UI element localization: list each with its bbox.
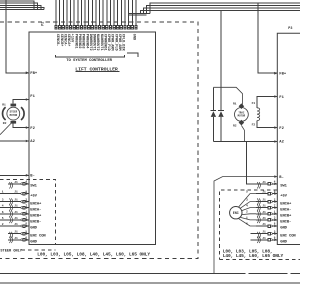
wire A2 left xyxy=(0,140,29,142)
svg-text:SW1: SW1 xyxy=(30,185,37,189)
svg-text:F2: F2 xyxy=(279,127,284,131)
wire SW1 feed xyxy=(246,142,267,184)
label F1 coil xyxy=(252,102,256,105)
label model codes right line1 xyxy=(223,248,273,254)
svg-text:FB+: FB+ xyxy=(30,72,38,76)
svg-text:2: 2 xyxy=(25,198,27,201)
label LIFT CONTROLLER xyxy=(75,66,119,72)
label TO SYSTEM CONTROLLER xyxy=(55,55,124,63)
wire B- left xyxy=(0,174,29,176)
svg-text:XFLD_DIR: XFLD_DIR xyxy=(121,34,125,52)
svg-text:ENCB-: ENCB- xyxy=(30,221,41,225)
svg-text:J1: J1 xyxy=(262,223,266,226)
svg-text:J1: J1 xyxy=(14,211,18,214)
svg-text:PWRGND2: PWRGND2 xyxy=(77,34,81,49)
terminal B- right xyxy=(274,175,284,180)
connector P3 label xyxy=(288,27,292,31)
wire steer motor armature diagonal xyxy=(0,123,11,134)
svg-text:7: 7 xyxy=(25,204,27,207)
wire section divider dash-dot xyxy=(0,272,300,274)
label R2 trac xyxy=(233,124,237,127)
svg-text:ENCA+: ENCA+ xyxy=(280,202,292,206)
svg-text:TO SYSTEM CONTROLLER: TO SYSTEM CONTROLLER xyxy=(66,59,112,63)
svg-text:ENC CON: ENC CON xyxy=(280,234,296,238)
wire A2 right xyxy=(213,141,277,143)
wire branch to trac motor xyxy=(213,87,242,105)
connector J1 right pin 6 (GND) xyxy=(251,237,288,245)
terminal B- left xyxy=(26,174,35,179)
ground symbol under GND pin xyxy=(127,53,138,57)
wire diode feed from bus xyxy=(220,11,222,111)
svg-text:A2: A2 xyxy=(279,141,284,145)
svg-text:8: 8 xyxy=(25,223,27,226)
svg-text:4: 4 xyxy=(25,181,27,184)
svg-text:DNWROUT2: DNWROUT2 xyxy=(88,34,92,51)
wire steer motor to F2 xyxy=(13,124,29,128)
svg-text:XENCB-: XENCB- xyxy=(55,34,59,47)
svg-text:F1: F1 xyxy=(30,95,35,99)
diode D1 xyxy=(211,87,217,141)
svg-text:2: 2 xyxy=(246,211,248,214)
connector J1 right pin 2 (ENCA+) xyxy=(246,198,292,206)
motor M1 STEER MOTOR xyxy=(3,104,25,124)
terminal F2 left xyxy=(26,126,36,131)
svg-text:L00, L03, L05, L08, L40, L45,: L00, L03, L05, L08, L40, L45, L60, L65 O… xyxy=(37,252,150,258)
svg-text:XPWR_ARM: XPWR_ARM xyxy=(117,34,121,51)
svg-text:J1: J1 xyxy=(262,237,266,240)
dashed region encoder L-models xyxy=(219,190,300,260)
svg-text:6: 6 xyxy=(25,237,27,240)
svg-text:L40, L45, L60, L65 ONLY: L40, L45, L60, L65 ONLY xyxy=(223,253,284,259)
svg-text:5: 5 xyxy=(2,217,4,220)
label model codes left xyxy=(37,252,150,258)
connector J1 left pin 2 (ENCA+) xyxy=(0,198,42,206)
svg-text:3: 3 xyxy=(2,199,4,202)
diode D2 xyxy=(218,110,224,141)
svg-text:5: 5 xyxy=(246,190,248,193)
svg-text:MOTOR: MOTOR xyxy=(10,114,18,117)
svg-text:XPWR_ARM: XPWR_ARM xyxy=(110,34,114,51)
terminal FB+ right xyxy=(274,72,287,77)
svg-text:XPWR_FLD: XPWR_FLD xyxy=(106,34,110,51)
svg-text:J1: J1 xyxy=(262,199,266,202)
svg-text:GND: GND xyxy=(30,241,37,245)
svg-text:DNWROUT1: DNWROUT1 xyxy=(92,34,96,51)
svg-text:J1: J1 xyxy=(262,181,266,184)
connector P2 pin name labels xyxy=(55,34,135,52)
label R1 trac xyxy=(233,102,237,105)
svg-text:P2: P2 xyxy=(41,22,45,26)
svg-text:PWRGND3: PWRGND3 xyxy=(81,34,85,49)
terminal F1 left xyxy=(26,95,36,101)
svg-text:9: 9 xyxy=(25,190,27,193)
dashed region boundary xyxy=(0,22,198,258)
svg-text:ENCB+: ENCB+ xyxy=(280,215,292,219)
svg-text:J1: J1 xyxy=(14,199,18,202)
svg-text:4: 4 xyxy=(246,204,248,207)
svg-text:J1: J1 xyxy=(14,205,18,208)
connector J1 right pin 5 (ENC CON) xyxy=(251,230,297,238)
connector P2 pins xyxy=(55,26,137,29)
connector J1 right pin 8 (GND) xyxy=(246,223,288,231)
svg-text:F2: F2 xyxy=(30,127,35,131)
wire bus group top-left xyxy=(0,1,44,9)
svg-text:R2: R2 xyxy=(3,122,7,125)
svg-text:PWRGND1: PWRGND1 xyxy=(73,34,77,49)
svg-text:4: 4 xyxy=(2,205,4,208)
svg-text:+5V: +5V xyxy=(30,194,37,198)
encoder B1 ENC xyxy=(230,207,242,219)
inductor field coil F1-F2 xyxy=(257,108,260,121)
svg-text:GND: GND xyxy=(280,241,287,245)
svg-text:ENCA-: ENCA- xyxy=(30,208,41,212)
svg-text:J1: J1 xyxy=(262,231,266,234)
connector P2 wires xyxy=(56,0,136,25)
connector J1 right pin 1 (ENCB+) xyxy=(246,211,292,219)
svg-text:1: 1 xyxy=(2,191,4,194)
svg-text:ENC CON: ENC CON xyxy=(30,234,46,238)
svg-text:6: 6 xyxy=(2,211,4,214)
wire FB+ left xyxy=(6,0,29,74)
svg-text:ENCA+: ENCA+ xyxy=(30,202,42,206)
svg-text:J1: J1 xyxy=(262,191,266,194)
svg-text:XPWRGND1: XPWRGND1 xyxy=(102,34,106,51)
svg-text:J1: J1 xyxy=(262,217,266,220)
wires encoder fan-out xyxy=(239,194,257,226)
svg-text:B-: B- xyxy=(279,176,284,180)
wire F1 right to field coil xyxy=(257,97,277,108)
terminal F2 right xyxy=(274,126,284,131)
svg-text:STEER ONLY: STEER ONLY xyxy=(0,249,22,253)
connector J1 right pin 7 (ENCA-) xyxy=(246,204,291,212)
connector J1 right pin 4 (SW1) xyxy=(262,181,287,189)
connector J1 left pin 5 (ENC CON) xyxy=(8,230,46,238)
svg-text:R2: R2 xyxy=(233,124,237,127)
connector J1 left pin 3 (ENCB-) xyxy=(0,217,41,225)
terminal A2 left xyxy=(26,140,36,145)
svg-text:R1: R1 xyxy=(2,104,6,107)
svg-text:XENCA+: XENCA+ xyxy=(66,34,70,47)
wire bus group top-right xyxy=(129,3,300,15)
wire field coil to F2 xyxy=(257,121,277,128)
traction controller U2 box xyxy=(277,33,300,244)
svg-text:J1: J1 xyxy=(14,191,18,194)
svg-text:J1: J1 xyxy=(14,237,18,240)
svg-text:R1: R1 xyxy=(233,102,237,105)
svg-text:+15V: +15V xyxy=(70,34,74,43)
svg-text:XENCA-: XENCA- xyxy=(62,34,66,47)
connector J1 left pin 7 (ENCA-) xyxy=(0,204,41,212)
label STEER ONLY xyxy=(0,249,22,253)
connector J1 left pin 1 (ENCB+) xyxy=(0,211,42,219)
svg-text:GND: GND xyxy=(280,227,287,231)
svg-text:ENCB-: ENCB- xyxy=(280,221,291,225)
svg-text:2: 2 xyxy=(2,223,4,226)
connector J1 right pin 3 (ENCB-) xyxy=(246,217,291,225)
dashed region STEER ONLY xyxy=(0,180,56,250)
svg-text:6: 6 xyxy=(246,223,248,226)
label R1 steer xyxy=(2,104,6,107)
svg-text:GND: GND xyxy=(30,227,37,231)
svg-text:B-: B- xyxy=(30,175,35,179)
lift controller U1 box xyxy=(29,32,156,244)
svg-text:A2: A2 xyxy=(30,140,35,144)
svg-text:F1: F1 xyxy=(279,96,284,100)
wire F1 to steer motor xyxy=(13,100,29,104)
svg-text:MOTOR: MOTOR xyxy=(238,115,246,118)
svg-text:J1: J1 xyxy=(14,231,18,234)
svg-text:3: 3 xyxy=(246,198,248,201)
connector J1 left pin 6 (GND) xyxy=(8,237,38,245)
svg-text:F2: F2 xyxy=(252,124,256,127)
svg-text:NAWROUT2: NAWROUT2 xyxy=(95,34,99,51)
terminal F1 right xyxy=(274,95,284,100)
svg-text:1: 1 xyxy=(246,217,248,220)
svg-text:J1: J1 xyxy=(14,223,18,226)
svg-text:ENCA-: ENCA- xyxy=(280,208,291,212)
connector J1 left pin 9 (+5V) xyxy=(0,190,38,198)
connector P2 label xyxy=(41,22,45,26)
wire bottom rule xyxy=(0,282,300,284)
wire FB+ right xyxy=(258,3,277,75)
svg-text:P3: P3 xyxy=(288,27,292,31)
svg-text:FB+: FB+ xyxy=(279,73,287,77)
svg-text:3: 3 xyxy=(25,217,27,220)
terminal FB+ left xyxy=(26,72,38,77)
svg-text:F1: F1 xyxy=(252,102,256,105)
svg-text:J1: J1 xyxy=(14,181,18,184)
twisted pair symbols right J1 xyxy=(257,182,260,243)
svg-text:+5V: +5V xyxy=(280,194,287,198)
svg-text:5: 5 xyxy=(25,230,27,233)
svg-text:GND: GND xyxy=(132,34,136,40)
wire trac motor to A2 xyxy=(241,125,244,141)
svg-text:XPWR_FLD: XPWR_FLD xyxy=(113,34,117,51)
terminal A2 right xyxy=(274,140,284,145)
label R2 steer xyxy=(3,122,7,125)
connector J1 left pin 4 (SW1) xyxy=(8,181,38,189)
connector J1 right pin 9 (+5V) xyxy=(246,190,288,198)
svg-text:ENCB+: ENCB+ xyxy=(30,215,42,219)
label model codes right line2 xyxy=(223,253,284,259)
label F2 coil xyxy=(252,124,256,127)
svg-text:PWRGND4: PWRGND4 xyxy=(84,34,88,49)
svg-text:J1: J1 xyxy=(14,217,18,220)
connector J1 left pin 8 (GND) xyxy=(0,223,38,231)
motor M2 TRAC MOTOR xyxy=(235,103,249,125)
svg-text:XENCB+: XENCB+ xyxy=(59,34,63,47)
twisted pair symbols left J1 xyxy=(9,182,12,243)
svg-text:J1: J1 xyxy=(262,205,266,208)
svg-text:J1: J1 xyxy=(262,211,266,214)
svg-text:NAWROUT1: NAWROUT1 xyxy=(99,34,103,51)
svg-text:ENC: ENC xyxy=(233,211,239,215)
svg-text:1: 1 xyxy=(25,211,27,214)
svg-text:SW1: SW1 xyxy=(280,185,287,189)
wire B- right xyxy=(214,177,277,274)
